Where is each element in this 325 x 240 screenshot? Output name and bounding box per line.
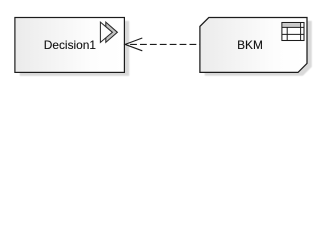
open arrowhead at Decision1 bbox=[125, 38, 142, 51]
decomposition indicator: back triangle bbox=[106, 22, 118, 42]
decision table icon: header row fill bbox=[283, 23, 300, 27]
decision table icon: middle row divider bbox=[282, 33, 304, 35]
decision table icon: header underline bbox=[282, 26, 304, 28]
decomposition indicator: front triangle bbox=[100, 22, 112, 42]
decision Decision1 body bbox=[15, 18, 125, 73]
decision table icon: first column divider bbox=[286, 27, 288, 40]
BKM body bbox=[200, 18, 307, 73]
decision Decision1 shadow bbox=[20, 21, 130, 76]
decision table icon: output column divider bbox=[300, 23, 302, 41]
svg-text:Decision1: Decision1 bbox=[44, 38, 97, 52]
decision table icon: outer frame bbox=[282, 23, 304, 41]
knowledge requirement connector: dashed wire bbox=[126, 43, 200, 45]
BKM shadow bbox=[205, 21, 312, 76]
svg-text:BKM: BKM bbox=[237, 38, 263, 52]
